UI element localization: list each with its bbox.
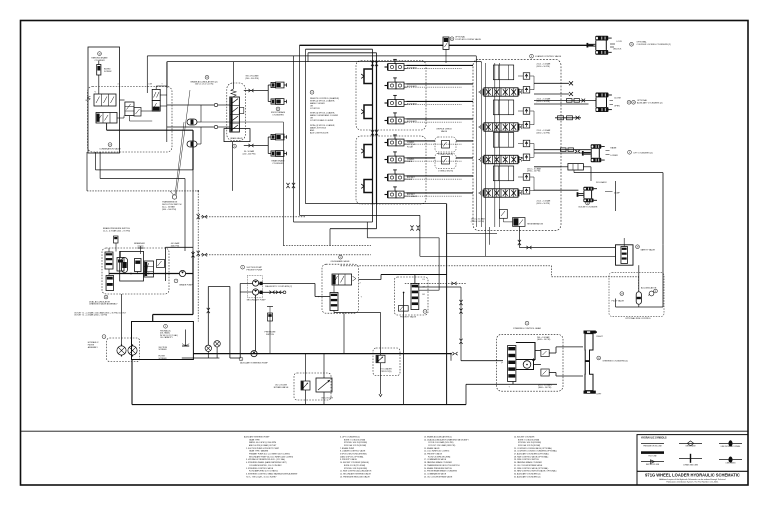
svg-text:RAISE: RAISE — [610, 147, 617, 150]
pilot valve PU3 — [388, 100, 396, 107]
charging cartridge CV3 — [117, 258, 124, 272]
steering metering unit — [523, 361, 531, 369]
svg-text:(3050 + 50 PSI): (3050 + 50 PSI) — [537, 101, 551, 103]
circled 8 loader control valve — [530, 54, 534, 58]
svg-text:OIL COOLER: OIL COOLER — [321, 397, 334, 399]
svg-text:9: 9 — [424, 311, 425, 313]
circled 21 front brakes — [276, 107, 280, 111]
svg-text:RAISE: RAISE — [407, 160, 413, 163]
svg-text:15: 15 — [233, 146, 235, 148]
disconnect chevrons on pilot drop — [197, 214, 200, 219]
svg-text:RESTRICTED LINE: RESTRICTED LINE — [646, 464, 659, 466]
svg-text:23. OIL COOLER BYPASS VALVE: 23. OIL COOLER BYPASS VALVE — [424, 475, 453, 478]
svg-text:17. COMBINATION VALVE: 17. COMBINATION VALVE — [424, 458, 447, 461]
circled 35 steering cylinders — [597, 356, 601, 360]
steering cylinder right — [584, 331, 596, 334]
svg-text:13: 13 — [206, 77, 208, 79]
svg-text:35: 35 — [598, 358, 600, 360]
svg-text:LINE JOINING: LINE JOINING — [726, 462, 737, 464]
svg-text:SECONDARY PUMP 26.4 CU. IN/REV: SECONDARY PUMP 26.4 CU. IN/REV (433 CC/R… — [249, 455, 294, 458]
svg-text:OIL CAPACITY: OIL CAPACITY — [160, 336, 174, 339]
wire dashed pilot drop left — [87, 190, 198, 192]
svg-text:16. PRIORITY VALVE: 16. PRIORITY VALVE — [424, 453, 443, 456]
svg-text:STEERING CONTROL GEAR: STEERING CONTROL GEAR — [513, 327, 541, 330]
brake valve vertical spool — [230, 97, 240, 132]
wire secondary steering T drop — [343, 313, 345, 353]
loader circuit valve — [376, 355, 385, 363]
loader control valve dashed box — [473, 59, 561, 230]
svg-text:FLOW AMPLIFIED (5 TO 1 RATIO): FLOW AMPLIFIED (5 TO 1 RATIO) — [249, 470, 278, 473]
svg-text:(3050 + 50 PSI): (3050 + 50 PSI) — [537, 203, 551, 205]
svg-text:3: 3 — [165, 326, 166, 328]
pilot lines to main valve — [407, 64, 474, 66]
svg-text:21. FRONT/REAR BRAKE CYLINDERS: 21. FRONT/REAR BRAKE CYLINDERS — [424, 470, 458, 473]
wire steering supply onward — [359, 279, 382, 281]
wire SV1 ports — [155, 86, 157, 89]
svg-text:AUXILIARY STEERING PUMP: AUXILIARY STEERING PUMP — [244, 435, 270, 438]
pilot bracket lower 2 — [364, 180, 373, 193]
pilot valve PL4 — [388, 191, 396, 198]
svg-text:(200 - 500 PSI): (200 - 500 PSI) — [243, 154, 256, 156]
wire pilot supply stair 1 — [306, 203, 447, 205]
main valve section 1 reliefs — [523, 73, 530, 80]
pilot controls dashed box upper — [356, 61, 426, 131]
section1 plugged work lines — [534, 82, 569, 84]
svg-text:JOYSTICK AND 1 LEVER: JOYSTICK AND 1 LEVER — [310, 119, 334, 122]
svg-text:CUT-IN: 100.5 BAR (1450 PSI): CUT-IN: 100.5 BAR (1450 PSI) — [428, 441, 454, 444]
legend check valve — [679, 442, 702, 444]
svg-text:SCREW: SCREW — [104, 71, 112, 73]
main valve section 4 spool — [484, 189, 518, 197]
wire h y178 — [100, 178, 185, 180]
svg-text:24. BUCKET CYLINDER: 24. BUCKET CYLINDER — [514, 436, 535, 438]
oil cooler check — [316, 378, 332, 392]
svg-text:100 CC ( 6.1 CU. IN): 100 CC ( 6.1 CU. IN) — [195, 84, 214, 86]
svg-text:AUX CONTROLLER: AUX CONTROLLER — [310, 131, 329, 134]
svg-text:OPTIONAL RIDE CONTROL: OPTIONAL RIDE CONTROL — [625, 317, 652, 320]
front brake cylinder FB1 — [268, 84, 271, 86]
wire dashed LS line — [405, 282, 466, 284]
pump group dotted box — [247, 276, 262, 298]
svg-text:CUT-OUT: 126.5 BAR (1835 PSI): CUT-OUT: 126.5 BAR (1835 PSI) — [428, 444, 456, 447]
ride accumulator — [636, 292, 641, 305]
wire valve bottom to ride control — [519, 247, 615, 249]
rear brake cylinder RB1 — [268, 136, 271, 138]
suction line 1 — [207, 287, 209, 346]
wire pilot supply stair 3 — [293, 56, 295, 222]
steering internals wires — [535, 350, 541, 352]
ride control valve box — [616, 245, 634, 265]
svg-text:2. SUCTION PUMP & PRIORITY PUM: 2. SUCTION PUMP & PRIORITY PUMP — [246, 448, 280, 450]
charging valve dashed box — [102, 248, 169, 294]
pilot valve PL1 — [388, 139, 396, 146]
svg-text:LEFT: LEFT — [597, 393, 603, 395]
svg-text:5: 5 — [526, 323, 527, 325]
suction jog — [208, 286, 230, 288]
svg-text:29. RIDE CONTROL SWITCH: 29. RIDE CONTROL SWITCH — [514, 459, 539, 461]
pilot controls dashed box lower — [356, 136, 426, 204]
valve V17a in parking brake box — [94, 94, 116, 106]
svg-text:AUXILIARY: AUXILIARY — [407, 85, 418, 88]
circled 1 aux pump — [239, 357, 243, 361]
svg-text:COLUMN MOUNTED, 11.4 CU IN./RE: COLUMN MOUNTED, 11.4 CU IN./REV — [249, 465, 282, 467]
main valve section 2 reliefs — [523, 108, 530, 115]
svg-text:STROKE: 34.4 IN (874 MM): STROKE: 34.4 IN (874 MM) — [518, 442, 541, 444]
cartridge symbol in box — [135, 259, 142, 272]
brake pump P7 — [179, 270, 185, 276]
svg-text:GEAR TYPE:: GEAR TYPE: — [249, 438, 261, 441]
circled 2 pumps — [241, 265, 245, 269]
crossover relief block — [568, 164, 584, 170]
bottom return bus — [132, 404, 466, 406]
svg-text:LOADER CONTROL VALVE: LOADER CONTROL VALVE — [535, 55, 562, 58]
brake valve spring top — [231, 89, 236, 97]
steering inner loop — [516, 359, 534, 370]
steering metering heavy loop — [516, 343, 535, 360]
svg-text:20. BRAKE PRESSURE SWITCH: 20. BRAKE PRESSURE SWITCH — [424, 467, 452, 470]
svg-text:ACCUMULATOR: ACCUMULATOR — [641, 286, 657, 289]
svg-text:REGENERATION: REGENERATION — [527, 223, 543, 226]
svg-text:RIGHT: RIGHT — [597, 336, 604, 338]
wire cooler connections — [305, 354, 307, 381]
svg-text:6: 6 — [629, 152, 630, 154]
svg-text:STEERING CYLINDERS (2): STEERING CYLINDERS (2) — [603, 361, 629, 363]
ride control cartridge — [621, 247, 628, 264]
brake accumulator A2 — [187, 141, 197, 147]
pump P2b — [253, 289, 259, 295]
svg-text:9. PRIORITY VALVE: 9. PRIORITY VALVE — [340, 458, 358, 461]
svg-text:PRIORITY PUMP: PRIORITY PUMP — [247, 270, 263, 272]
wire top feed lines — [147, 55, 476, 57]
legend pressure line — [641, 442, 664, 444]
circled 13 brake accumulators — [205, 75, 209, 79]
priority valve dashed box — [394, 277, 428, 315]
svg-text:SAFETY VALVE: SAFETY VALVE — [641, 248, 656, 251]
leader lines declutch — [175, 122, 184, 195]
pump outlet couplings — [260, 282, 263, 285]
steering check 1 — [541, 350, 549, 357]
svg-text:17: 17 — [109, 144, 111, 146]
wire pump2 out — [259, 291, 283, 293]
circled 10 bucket cylinder — [586, 201, 590, 205]
svg-text:(2950 + 50 PSI): (2950 + 50 PSI) — [527, 171, 541, 173]
junction arrows bottom left of valve — [410, 225, 413, 230]
svg-text:AND 100 PSI (6.9 BAR) OUTLET: AND 100 PSI (6.9 BAR) OUTLET — [249, 444, 277, 447]
circled 28 ride valve — [636, 245, 640, 249]
wire dashed mid 2 — [198, 254, 340, 256]
wire brake valve feeds — [166, 62, 168, 142]
circled 9 priority valve — [423, 310, 427, 314]
svg-text:31. OIL COOLER BYPASS VALVE: 31. OIL COOLER BYPASS VALVE — [514, 464, 543, 467]
svg-text:PILOT LINE: PILOT LINE — [648, 455, 656, 457]
wire bucket tap to ride control — [574, 172, 663, 174]
steering cylinder left — [584, 391, 596, 394]
main valve section 1 bridge — [493, 65, 513, 80]
wire left drop from parking box — [86, 152, 88, 191]
svg-text:13. BRAKE ACCUMULATORS (2): 13. BRAKE ACCUMULATORS (2) — [424, 435, 452, 438]
svg-text:CYLINDERS: CYLINDERS — [272, 114, 284, 116]
svg-text:STROKE: 34.4 IN (874 MM): STROKE: 34.4 IN (874 MM) — [344, 442, 367, 444]
brake accumulator A1 — [187, 119, 197, 125]
svg-text:AUXILIARY: AUXILIARY — [407, 103, 418, 106]
pressure switch S3 — [269, 313, 271, 354]
aux steering return line — [193, 353, 451, 355]
svg-text:(3050 + 50 PSI): (3050 + 50 PSI) — [537, 66, 551, 68]
pilot bus lines — [372, 61, 374, 205]
suction screen symbol — [185, 330, 187, 347]
svg-text:12: 12 — [339, 257, 341, 259]
hydraulic tank box — [132, 322, 194, 360]
wire steering T return — [512, 382, 514, 385]
svg-text:LINE CROSS. W/O JOINING: LINE CROSS. W/O JOINING — [721, 446, 741, 448]
svg-text:7. BRAKE PUMP: 7. BRAKE PUMP — [340, 447, 355, 450]
regen relief — [500, 209, 508, 218]
svg-text:25. COUPLER LOCKING VALVE (OPT: 25. COUPLER LOCKING VALVE (OPTIONAL) — [514, 447, 552, 450]
svg-text:(2320 + 50 PSI): (2320 + 50 PSI) — [471, 221, 485, 223]
wire dashed mid 3 — [283, 245, 371, 247]
svg-text:10. BUCKET CYLINDER (SINGLE): 10. BUCKET CYLINDER (SINGLE) — [340, 462, 369, 464]
wire pump to aux pump — [255, 295, 257, 350]
svg-text:JOYSTICK: JOYSTICK — [310, 108, 320, 110]
svg-text:13. PRESSURE REDUCING VALVE: 13. PRESSURE REDUCING VALVE — [340, 475, 371, 478]
svg-text:RATED: 40.0 GPM @ 2000 RPM: RATED: 40.0 GPM @ 2000 RPM — [249, 441, 277, 444]
wire CF to steering — [415, 286, 461, 288]
svg-text:34. AUXILIARY CYLINDERS (2): 34. AUXILIARY CYLINDERS (2) — [514, 472, 541, 475]
circled 25 coupler valve — [450, 37, 454, 41]
valve V17b — [96, 113, 117, 124]
main valve section 2 bridge — [493, 100, 513, 115]
svg-text:6. LIFT CYLINDERS (2): 6. LIFT CYLINDERS (2) — [340, 436, 360, 438]
front brake cylinder FB2 — [268, 101, 271, 103]
svg-text:33. NEW CONTROL SWITCH (VALVE,: 33. NEW CONTROL SWITCH (VALVE, OPTIONAL) — [514, 470, 557, 473]
lift cylinder work lines — [534, 149, 591, 151]
svg-text:OUTLET #2 + 2.4 BAR (2050 + 50: OUTLET #2 + 2.4 BAR (2050 + 50 PSI) — [74, 314, 107, 317]
brake valve dashed box — [227, 83, 246, 141]
circled 26 coupler cylinders — [630, 42, 634, 46]
svg-text:27: 27 — [628, 102, 630, 104]
wire brake valve to rear cylinders — [244, 145, 268, 147]
svg-text:CLOSE: CLOSE — [614, 98, 621, 100]
to loader circuit dashed box — [373, 348, 400, 376]
svg-text:SECONDARY PUMP: SECONDARY PUMP — [247, 298, 267, 301]
pump P2a — [253, 280, 259, 286]
brake valve drop to pilot line — [232, 142, 234, 191]
svg-text:PRIORITY VALVE: PRIORITY VALVE — [400, 316, 417, 319]
ride gauge — [649, 291, 654, 296]
svg-text:MADE 3 LEVER AND 1 LEVER: MADE 3 LEVER AND 1 LEVER — [310, 114, 339, 117]
main valve section 4 reliefs — [523, 174, 530, 181]
main valve section 3 reliefs — [523, 140, 530, 147]
priority cartridge — [411, 284, 419, 310]
circled 17 combination valve — [108, 143, 112, 147]
svg-text:BYPASS VALVE: BYPASS VALVE — [274, 386, 289, 389]
svg-text:5. STEERING CONTROL VALVE: 5. STEERING CONTROL VALVE — [246, 467, 274, 470]
svg-text:LIFT CYLINDERS (2): LIFT CYLINDERS (2) — [634, 152, 653, 154]
svg-text:6. STEERING CONTROL GEAR, MAXI: 6. STEERING CONTROL GEAR, MAXIMUM DISPLA… — [246, 472, 298, 475]
pilot valve PU1 — [388, 64, 396, 71]
svg-text:2 AND 4 SPOOL OPTIONAL: 2 AND 4 SPOOL OPTIONAL — [340, 455, 364, 458]
secondary steering valve dashed box — [322, 264, 359, 313]
svg-text:19. TRANSMISSION DECLUTCH SWIT: 19. TRANSMISSION DECLUTCH SWITCH — [424, 464, 460, 467]
svg-text:30. PARKING BRAKE CYLINDER: 30. PARKING BRAKE CYLINDER — [514, 461, 543, 464]
svg-text:FLOAT: FLOAT — [407, 145, 414, 148]
svg-text:BRAKE PUMP: BRAKE PUMP — [179, 283, 193, 286]
svg-text:CHARGING VALVE ASSEMBLY: CHARGING VALVE ASSEMBLY — [89, 303, 118, 306]
svg-text:UNLOCK: UNLOCK — [613, 49, 622, 51]
svg-text:SCREEN: SCREEN — [159, 358, 168, 360]
svg-text:22. COMBINATION VALVE: 22. COMBINATION VALVE — [424, 472, 447, 475]
svg-text:PRIMARY PUMP 40.1 CU. IN/REV (: PRIMARY PUMP 40.1 CU. IN/REV (657 CC/REV… — [249, 453, 290, 456]
svg-text:BUCKET CYLINDER: BUCKET CYLINDER — [579, 206, 598, 208]
wire regen down — [502, 218, 504, 222]
legend line crossing — [719, 442, 742, 444]
suction line 3 — [239, 284, 241, 359]
svg-text:SWITCH: SWITCH — [266, 334, 274, 336]
wire bucket work lines — [534, 166, 561, 168]
circled 15 brake valve — [233, 144, 237, 148]
svg-text:W: W — [86, 100, 88, 102]
svg-text:26. COUPLER LOCKING CYLINDERS: 26. COUPLER LOCKING CYLINDERS (OPTIONAL) — [514, 450, 557, 453]
parking brake cylinder box — [88, 47, 120, 153]
svg-text:32. RIDE CONTROL VALVE (OPTION: 32. RIDE CONTROL VALVE (OPTIONAL) — [514, 467, 549, 470]
wire steering ports right — [556, 346, 583, 348]
svg-text:18: 18 — [98, 53, 100, 55]
svg-text:OPEN: OPEN — [614, 105, 620, 107]
wire pumps to steering box — [333, 284, 335, 293]
svg-text:FLOW: 26 GPM (98 L/MIN): FLOW: 26 GPM (98 L/MIN) — [428, 456, 451, 458]
filter F2 — [128, 346, 137, 355]
svg-text:ROLLBACK: ROLLBACK — [407, 195, 418, 198]
circled 14 charging valve — [104, 295, 108, 299]
svg-text:15. BRAKE VALVE: 15. BRAKE VALVE — [424, 447, 440, 450]
svg-text:DUMP: DUMP — [614, 193, 621, 195]
main valve section 2 spool — [484, 123, 518, 131]
wire charging internals — [108, 248, 110, 252]
svg-text:28: 28 — [636, 247, 638, 249]
svg-text:1 STEM (2 SECTN): 1 STEM (2 SECTN) — [438, 171, 453, 173]
svg-text:2: 2 — [242, 267, 243, 269]
svg-text:(3800 + 50 PSI): (3800 + 50 PSI) — [538, 387, 552, 389]
wire dashed mid 1 — [198, 216, 305, 218]
svg-text:1: 1 — [240, 359, 241, 361]
svg-text:11: 11 — [655, 291, 657, 293]
wire parking box to components — [120, 99, 125, 101]
coupler supply line — [300, 44, 444, 46]
bypass valve — [301, 381, 310, 390]
svg-text:VALVE: VALVE — [441, 130, 448, 133]
tank check T2 — [214, 341, 220, 347]
wire ride internals — [638, 265, 640, 292]
wire coupler valve tee — [445, 49, 447, 63]
wire steering supply — [461, 360, 503, 362]
wire h y170 — [96, 169, 194, 171]
svg-text:21: 21 — [277, 109, 279, 111]
circled 12 secondary steering — [339, 255, 343, 259]
coupler locking cylinder — [595, 36, 608, 41]
priority pilot box — [398, 306, 408, 312]
remote control text block — [310, 90, 314, 94]
svg-text:COMBINATION VALVE: COMBINATION VALVE — [99, 147, 121, 150]
svg-text:(3000 + 50 PSI): (3000 + 50 PSI) — [537, 339, 551, 341]
charging sub-box solid — [120, 251, 144, 281]
svg-text:AUXILIARY CYLINDERS (2): AUXILIARY CYLINDERS (2) — [637, 102, 663, 105]
main valve section 3 bridge — [493, 133, 513, 148]
wire priority connections — [414, 275, 416, 284]
svg-text:18. PARKING BRAKE CYLINDER: 18. PARKING BRAKE CYLINDER — [424, 461, 453, 464]
bucket cylinder — [583, 187, 593, 191]
svg-text:35. AUXILIARY CYLINDERS (2): 35. AUXILIARY CYLINDERS (2) — [514, 475, 541, 478]
svg-text:1: 1 — [103, 336, 104, 338]
svg-text:AUXILIARY: AUXILIARY — [407, 120, 418, 123]
charging valve spool V14 — [144, 261, 154, 277]
svg-text:BREATHER: BREATHER — [134, 242, 145, 245]
circled 18 parking brake — [98, 52, 102, 56]
label pilot valve ride — [620, 292, 624, 296]
legend restricted line — [641, 461, 664, 463]
orifice check box 1 — [435, 137, 456, 152]
filter assembly dashed box — [107, 338, 140, 362]
legend pilot line — [641, 451, 664, 454]
solenoid valve pair SV1 — [152, 89, 160, 100]
regeneration solenoid — [513, 218, 525, 227]
main supply line y273.5 — [109, 273, 180, 275]
diagnostic couplers — [259, 283, 315, 285]
pilot bracket upper 2 — [364, 105, 373, 119]
svg-text:PRESSURE OR SVC LINE: PRESSURE OR SVC LINE — [643, 445, 661, 447]
svg-text:BORE: 7.5 IN (190.5 MM): BORE: 7.5 IN (190.5 MM) — [518, 439, 539, 441]
svg-text:(2650 + 50 PSI): (2650 + 50 PSI) — [537, 132, 551, 134]
svg-text:CYLINDERS: CYLINDERS — [272, 163, 284, 165]
circled 5 steering gear — [525, 321, 529, 325]
svg-text:14: 14 — [105, 297, 107, 299]
svg-text:DUMP: DUMP — [407, 179, 413, 181]
svg-text:BORE: 8.5 IN (215.9 MM): BORE: 8.5 IN (215.9 MM) — [344, 465, 365, 467]
svg-text:27. AUXILIARY CYLINDERS (OPTIO: 27. AUXILIARY CYLINDERS (OPTIONAL) — [514, 453, 549, 456]
circled 7 brake pump — [174, 279, 178, 283]
svg-text:10: 10 — [586, 203, 588, 205]
svg-text:AUXILIARY STEERING PUMP: AUXILIARY STEERING PUMP — [240, 361, 268, 364]
wire charge to filter — [121, 294, 123, 345]
svg-text:971G WHEEL LOADER HYDRAULIC S: 971G WHEEL LOADER HYDRAULIC SCHEMATIC — [645, 473, 740, 478]
transmission declutch switch S1 — [172, 195, 176, 199]
pilot valve PL3 — [388, 174, 396, 181]
charging pilot box — [157, 260, 165, 268]
circled 6 lift cylinders — [628, 150, 632, 154]
svg-text:T: T — [162, 84, 163, 86]
ride control dashed box — [609, 273, 664, 317]
auxiliary cylinders — [596, 93, 609, 98]
wire combination valve outlet thick — [107, 129, 193, 131]
wire y314 to tank — [153, 314, 193, 316]
steering spool stack — [508, 346, 516, 382]
svg-text:ON-DEMAND VALVE: ON-DEMAND VALVE — [330, 260, 350, 263]
brake valve side tap — [239, 108, 243, 114]
tank check T1 — [205, 345, 211, 351]
svg-text:LOWER: LOWER — [610, 155, 618, 157]
brake valve port circles — [214, 103, 217, 106]
component C1 reducing cartridge — [125, 102, 134, 116]
rear brake cylinder RB2 — [268, 153, 271, 155]
svg-text:4: 4 — [118, 84, 119, 86]
circled 27 aux cylinders — [627, 100, 631, 104]
svg-text:BRAKE VALVE: BRAKE VALVE — [230, 137, 243, 140]
svg-text:7: 7 — [175, 281, 176, 283]
wire pilot supply stair 2 — [299, 45, 301, 215]
svg-text:26: 26 — [630, 44, 632, 46]
svg-text:AUXILIARY: AUXILIARY — [407, 67, 418, 70]
svg-text:11. RIDE CONTROL ACCUMULATOR: 11. RIDE CONTROL ACCUMULATOR — [340, 470, 372, 473]
svg-text:COUPLER LOCKING CYLINDERS (2): COUPLER LOCKING CYLINDERS (2) — [637, 44, 672, 46]
